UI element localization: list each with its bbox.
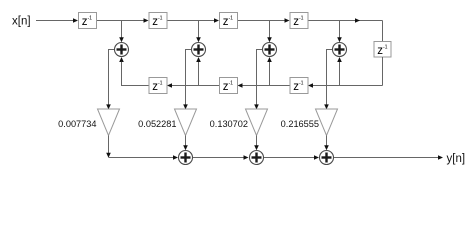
- svg-text:0.130702: 0.130702: [210, 119, 248, 129]
- svg-text:0.052281: 0.052281: [138, 119, 176, 129]
- svg-text:x[n]: x[n]: [12, 16, 31, 28]
- svg-text:0.007734: 0.007734: [58, 119, 96, 129]
- svg-text:y[n]: y[n]: [447, 153, 466, 165]
- svg-text:0.216555: 0.216555: [281, 119, 319, 129]
